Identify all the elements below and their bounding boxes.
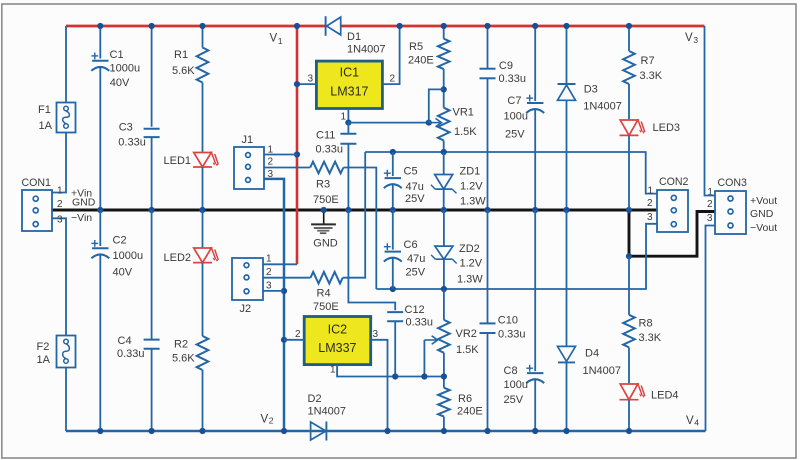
wire GND bus to C6 <box>392 210 394 250</box>
svg-text:R7: R7 <box>641 55 655 67</box>
pin 3 IC2 output to V4 rail <box>371 340 388 431</box>
svg-text:2: 2 <box>707 199 713 210</box>
svg-text:25V: 25V <box>406 267 426 279</box>
potentiometer VR2 <box>438 320 450 353</box>
wire GND bus to C4 <box>151 210 153 340</box>
resistor R8 <box>623 315 635 348</box>
wire V1 rail to C1 <box>99 26 101 59</box>
wire C2 to V2 rail <box>99 255 101 432</box>
wire R4 to positive node line <box>343 152 366 278</box>
svg-text:1.3W: 1.3W <box>460 196 486 208</box>
svg-text:3: 3 <box>373 329 379 340</box>
svg-text:1N4007: 1N4007 <box>583 101 622 113</box>
svg-text:V: V <box>685 32 693 44</box>
svg-text:0.33u: 0.33u <box>316 144 344 156</box>
op-amp U2 regulator IC2 LM337 <box>304 317 371 365</box>
wire R3 to negative node line <box>343 168 376 290</box>
svg-text:D4: D4 <box>585 348 599 360</box>
svg-text:F1: F1 <box>38 104 51 116</box>
wire LED4 to V4 rail <box>628 400 630 431</box>
zener ZD1 <box>435 175 453 190</box>
svg-text:C12: C12 <box>405 304 425 316</box>
svg-text:2: 2 <box>295 329 301 340</box>
svg-text:LM317: LM317 <box>330 85 368 99</box>
svg-text:C5: C5 <box>404 166 418 178</box>
wire V3 top rail (regulated positive) <box>341 25 705 28</box>
svg-text:LED2: LED2 <box>164 252 192 264</box>
svg-text:1: 1 <box>648 186 654 197</box>
wire C8 to V4 rail <box>534 379 536 431</box>
svg-text:100u: 100u <box>504 111 528 123</box>
svg-text:3: 3 <box>57 215 63 226</box>
svg-text:C3: C3 <box>119 122 133 134</box>
svg-text:1.3W: 1.3W <box>457 274 483 286</box>
wire V3 rail to C7 <box>534 26 536 101</box>
svg-text:0.33u: 0.33u <box>499 73 527 85</box>
wire C11 to GND bus <box>347 144 349 210</box>
wire VR1 to positive node line <box>443 141 445 153</box>
capacitor C8 <box>527 372 543 374</box>
capacitor C12 <box>387 311 403 313</box>
wire GND elbow to R8 <box>628 256 630 315</box>
capacitor C3 <box>144 128 160 130</box>
svg-text:LED3: LED3 <box>653 122 681 134</box>
wire C7 to GND bus <box>534 109 536 210</box>
wiper arrow VR1 <box>429 122 442 124</box>
wire V3 rail to D3 <box>566 26 568 84</box>
svg-text:F2: F2 <box>37 341 50 353</box>
capacitor C11 <box>347 123 349 134</box>
svg-text:D1: D1 <box>347 31 361 43</box>
svg-text:GND: GND <box>72 197 96 209</box>
wire R7 to LED3 <box>628 84 630 120</box>
svg-text:GND: GND <box>750 208 774 220</box>
wire R5 to VR1 <box>443 69 445 108</box>
svg-text:IC1: IC1 <box>340 66 360 80</box>
zener ZD2 <box>435 246 453 259</box>
capacitor C5 <box>385 177 401 179</box>
wire J1 pin2 to R3 <box>264 167 310 169</box>
diode D4 <box>558 346 576 361</box>
wire raw-negative vertical (J1 pin3 / J2 pin3 / IC2 pin2 to V2) <box>264 179 284 431</box>
svg-text:R6: R6 <box>458 393 472 405</box>
wire F2 to V2 rail <box>65 368 67 432</box>
wire C5 to GND bus <box>392 184 394 210</box>
svg-text:0.33u: 0.33u <box>406 317 434 329</box>
svg-text:V: V <box>270 33 278 45</box>
pin 1 IC2 adjust line <box>337 365 444 377</box>
wire V1 top rail (raw positive) <box>66 25 325 28</box>
wire V4 bottom rail (regulated negative) <box>310 430 706 432</box>
diode D1 <box>325 16 327 36</box>
diode D2 <box>311 422 326 440</box>
pin 2 IC2 input <box>284 339 304 341</box>
svg-text:R4: R4 <box>317 288 331 300</box>
svg-text:47u: 47u <box>407 253 425 265</box>
svg-text:25V: 25V <box>505 128 525 140</box>
svg-text:1: 1 <box>341 112 347 123</box>
svg-text:C10: C10 <box>498 315 518 327</box>
svg-text:D3: D3 <box>584 84 598 96</box>
svg-text:V: V <box>686 415 694 427</box>
svg-text:ZD1: ZD1 <box>460 166 481 178</box>
svg-text:2: 2 <box>390 74 396 85</box>
svg-text:0.33u: 0.33u <box>498 329 526 341</box>
wire C6 to negative node line <box>392 258 394 289</box>
svg-text:R3: R3 <box>316 179 330 191</box>
wire GND bus (CON1 pin2 to CON2 pin2) <box>52 209 657 212</box>
wire GND bus elbow to CON3 pin2 <box>629 210 715 256</box>
svg-text:CON3: CON3 <box>718 177 748 189</box>
svg-text:−Vout: −Vout <box>750 222 777 234</box>
svg-text:R5: R5 <box>409 41 423 53</box>
connector CON1 <box>22 190 52 231</box>
wire GND bus to LED2 <box>202 210 204 248</box>
wire V1 rail to fuse F1 <box>65 26 67 103</box>
wire GND bus to C8 <box>534 210 536 371</box>
capacitor C7 <box>527 102 543 104</box>
resistor R3 <box>310 162 343 174</box>
svg-text:240E: 240E <box>408 55 434 67</box>
svg-text:0.33u: 0.33u <box>118 136 146 148</box>
wire VR2 to IC2 adj line <box>443 353 445 377</box>
svg-text:LED1: LED1 <box>164 155 192 167</box>
svg-text:2: 2 <box>268 157 274 168</box>
LED LED1 <box>194 153 212 168</box>
wire ZD2 to negative node line <box>443 259 445 289</box>
wire IC1 adj line <box>348 122 428 124</box>
connector CON3 <box>715 191 746 234</box>
svg-text:2: 2 <box>647 198 653 209</box>
LED LED2 <box>194 248 212 263</box>
wire VR1 top tap bracket <box>429 89 444 122</box>
svg-text:1: 1 <box>330 365 336 376</box>
svg-text:VR2: VR2 <box>456 328 477 340</box>
svg-text:47u: 47u <box>406 181 424 193</box>
wire LED3 to GND bus <box>628 135 630 210</box>
svg-text:5.6K: 5.6K <box>172 353 195 365</box>
wire R1 to LED1 <box>202 83 204 153</box>
svg-text:R8: R8 <box>639 318 653 330</box>
wire V1 rail to R1 <box>202 26 204 48</box>
svg-text:J1: J1 <box>242 134 254 146</box>
svg-text:1A: 1A <box>39 120 53 132</box>
wire GND bus to C12 <box>348 210 395 310</box>
wire V3 rail to CON3 pin1 <box>705 26 716 196</box>
resistor R2 <box>197 336 209 370</box>
wire GND bus to zener ZD2 <box>443 210 445 246</box>
svg-text:J2: J2 <box>240 303 252 315</box>
svg-text:240E: 240E <box>457 406 483 418</box>
wire V2 bottom rail (raw negative) <box>66 430 310 432</box>
wire positive node to C5 <box>392 152 394 176</box>
svg-text:−Vin: −Vin <box>71 212 92 224</box>
svg-text:+Vout: +Vout <box>750 195 777 207</box>
wire D4 to V4 rail <box>566 362 568 431</box>
svg-text:VR1: VR1 <box>453 107 474 119</box>
wire GND bus to D4 <box>566 210 568 346</box>
wire R8 to LED4 <box>628 347 630 384</box>
capacitor C10 <box>480 322 496 324</box>
pin 1 IC1 adjust <box>347 109 349 123</box>
svg-text:750E: 750E <box>313 301 339 313</box>
wire ZD1 to GND bus <box>443 189 445 210</box>
svg-text:C7: C7 <box>507 95 521 107</box>
svg-text:3: 3 <box>647 212 653 223</box>
svg-text:4: 4 <box>694 418 699 428</box>
wire V1 rail to C3 <box>151 26 153 127</box>
fuse F2 <box>57 336 76 368</box>
wire D3 to GND bus <box>566 100 568 210</box>
svg-text:40V: 40V <box>110 77 130 89</box>
svg-text:C9: C9 <box>499 60 513 72</box>
svg-text:1N4007: 1N4007 <box>308 406 347 418</box>
capacitor C2 <box>92 247 108 249</box>
svg-text:1N4007: 1N4007 <box>583 365 622 377</box>
capacitor C4 <box>144 339 160 341</box>
svg-text:LED4: LED4 <box>651 390 679 402</box>
wire R6 to V4 rail <box>443 417 445 431</box>
wire J2 pin1 to V1 vertical <box>263 263 297 265</box>
svg-text:1N4007: 1N4007 <box>347 44 386 56</box>
connector CON2 <box>657 190 688 232</box>
svg-text:25V: 25V <box>504 394 524 406</box>
op-amp U1 regulator IC1 LM317 <box>316 61 382 108</box>
resistor R5 <box>438 39 450 69</box>
svg-text:2: 2 <box>57 199 63 210</box>
wire C4 to V2 rail <box>151 349 153 431</box>
svg-text:GND: GND <box>313 238 338 250</box>
svg-text:1.2V: 1.2V <box>460 180 483 192</box>
svg-text:1: 1 <box>57 185 63 196</box>
capacitor C1 <box>92 60 108 62</box>
wire R2 to V2 rail <box>202 370 204 431</box>
wire C1 to GND bus <box>99 66 101 210</box>
svg-text:R2: R2 <box>174 339 188 351</box>
svg-text:C2: C2 <box>113 235 127 247</box>
connector J1 <box>234 147 264 189</box>
wiper arrow VR2 <box>424 339 437 341</box>
wire V3 rail to C9 <box>487 26 489 69</box>
wire raw-positive vertical (V1 to J1 pin1, J2 pin1) <box>296 26 299 264</box>
wire GND bus to C2 <box>99 210 101 246</box>
svg-text:C6: C6 <box>404 239 418 251</box>
fuse F1 <box>57 103 76 133</box>
connector J2 <box>232 258 263 300</box>
wire V3 rail to R5 <box>443 26 445 39</box>
pin 2 IC1 output to V3 rail <box>382 26 399 84</box>
LED LED3 <box>620 120 638 135</box>
svg-text:1.5K: 1.5K <box>456 344 479 356</box>
wire CON3 pin3 to V4 rail <box>706 226 716 432</box>
potentiometer VR1 <box>438 108 450 141</box>
svg-text:D2: D2 <box>308 393 322 405</box>
svg-text:CON2: CON2 <box>659 176 689 188</box>
svg-text:3: 3 <box>707 213 713 224</box>
svg-text:IC2: IC2 <box>328 323 348 337</box>
svg-text:ZD2: ZD2 <box>459 243 480 255</box>
svg-text:25V: 25V <box>405 193 425 205</box>
svg-text:C8: C8 <box>504 365 518 377</box>
svg-text:5.6K: 5.6K <box>172 65 195 77</box>
svg-text:0.33u: 0.33u <box>117 348 145 360</box>
LED LED4 <box>620 384 638 400</box>
wire GND bus to C10 <box>487 210 489 323</box>
wire J1 pin1 to V1 vertical <box>264 154 297 156</box>
svg-text:1000u: 1000u <box>110 63 141 75</box>
wire C12 to IC2 adj line <box>394 321 396 376</box>
svg-text:1.2V: 1.2V <box>460 258 483 270</box>
resistor R6 <box>438 388 450 417</box>
svg-text:1: 1 <box>266 254 272 265</box>
svg-text:1000u: 1000u <box>113 250 144 262</box>
wire LED1 to GND bus <box>202 167 204 210</box>
svg-text:2: 2 <box>269 416 274 426</box>
svg-text:2: 2 <box>266 267 272 278</box>
capacitor C6 <box>385 251 401 253</box>
svg-text:1.5K: 1.5K <box>454 126 477 138</box>
wire C10 to V4 rail <box>487 333 489 431</box>
pin 3 IC1 input <box>297 83 316 85</box>
resistor R1 <box>197 48 209 83</box>
diode D3 <box>558 83 576 85</box>
svg-text:3.3K: 3.3K <box>640 70 663 82</box>
wire F1 to CON1 pin1 <box>52 133 66 193</box>
wire J2 pin2 to R4 <box>263 277 311 279</box>
svg-text:1A: 1A <box>37 354 51 366</box>
wire node to zener ZD1 <box>443 152 445 175</box>
resistor R4 <box>311 272 343 284</box>
svg-text:3: 3 <box>266 281 272 292</box>
svg-text:C11: C11 <box>316 130 335 142</box>
svg-text:C1: C1 <box>110 49 124 61</box>
wire negative node to VR2 <box>443 289 445 320</box>
svg-text:R1: R1 <box>174 49 188 61</box>
wire J2 pin3 to raw-negative vertical <box>263 290 284 292</box>
ground <box>323 210 325 224</box>
wire positive node line (VR1/C5/CON2 pin1) <box>365 152 657 194</box>
svg-text:100u: 100u <box>504 379 528 391</box>
svg-text:V: V <box>261 414 269 426</box>
svg-text:750E: 750E <box>313 194 339 206</box>
wire C3 to GND bus <box>151 137 153 210</box>
capacitor C9 <box>480 68 496 70</box>
wire negative node line (ZD2/C6/VR2/CON2 pin3) <box>376 224 657 289</box>
wire VR2 wiper bracket to adj line <box>423 340 425 377</box>
wire CON1 pin3 to fuse F2 <box>52 218 66 335</box>
svg-text:1: 1 <box>278 36 283 46</box>
svg-text:3: 3 <box>693 35 698 45</box>
svg-text:LM337: LM337 <box>318 341 356 355</box>
svg-text:3: 3 <box>308 74 314 85</box>
svg-text:CON1: CON1 <box>22 177 52 189</box>
svg-text:40V: 40V <box>113 267 133 279</box>
svg-text:3: 3 <box>268 169 274 180</box>
svg-text:3.3K: 3.3K <box>639 332 662 344</box>
resistor R7 <box>623 51 635 84</box>
wire V3 rail to R7 <box>628 26 630 51</box>
svg-text:C4: C4 <box>118 335 132 347</box>
wire C9 to GND bus <box>487 78 489 210</box>
wire LED2 to R2 <box>202 263 204 336</box>
